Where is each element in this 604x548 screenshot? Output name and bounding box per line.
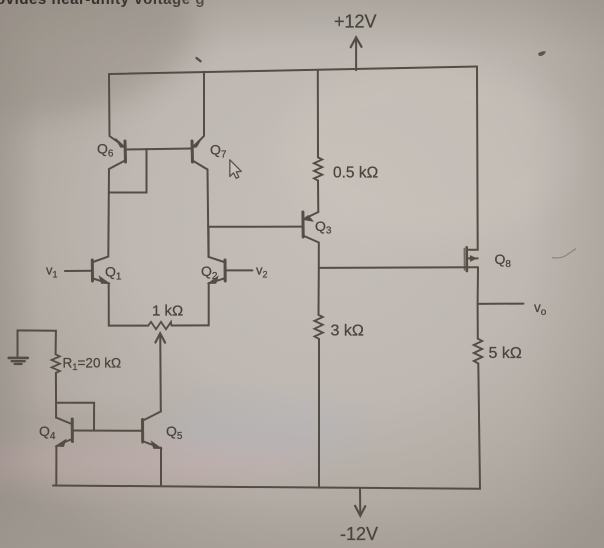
wire ground horizontal — [18, 330, 56, 357]
supply -12V arrow — [359, 489, 361, 516]
wire source to 5k — [477, 304, 479, 339]
photo mark dot — [197, 58, 201, 61]
transistor Q6 base bar — [124, 141, 128, 162]
resistor 0.5k zigzag — [314, 157, 322, 180]
transistor Q3 emitter arrow — [303, 216, 313, 222]
wire Q8 source down — [477, 267, 479, 304]
transistor Q3 emitter wire — [307, 212, 318, 218]
wire 3k branch — [318, 268, 320, 315]
transistor Q7 emitter arrow — [192, 139, 202, 148]
wire Q4 emitter down — [55, 446, 57, 486]
wire Q7 collector down to node A — [193, 161, 209, 258]
resistor 1k zigzag — [148, 322, 171, 329]
transistor Q3 collector wire — [303, 236, 319, 268]
resistor R1 zigzag — [52, 354, 60, 373]
tail arrowhead — [159, 334, 161, 342]
transistor Q1 emitter wire — [93, 279, 105, 283]
wire Q6-Q7 base link — [126, 149, 193, 150]
transistor Q1 base bar — [91, 260, 94, 281]
mouse cursor — [230, 160, 242, 179]
svg-text:0.5 kΩ: 0.5 kΩ — [333, 165, 378, 182]
wire tail current to Q5 collector — [159, 341, 162, 412]
transistor Q5 emitter arrow — [152, 442, 162, 449]
resistor 5k zigzag — [474, 339, 483, 364]
transistor Q6 emitter arrow — [116, 139, 126, 148]
wire 0.5k to Q3 emitter — [317, 181, 319, 212]
wire Q6 collector down to Q1 — [108, 161, 125, 257]
mosfet Q8 gate bar — [463, 249, 465, 271]
transistor Q4 emitter arrow — [56, 440, 66, 447]
svg-text:R1=20 kΩ: R1=20 kΩ — [63, 356, 122, 374]
resistor 3k zigzag — [314, 315, 323, 339]
transistor Q5 emitter wire — [144, 442, 157, 447]
wire node A to Q3 base — [208, 226, 303, 228]
svg-text:+12V: +12V — [334, 12, 377, 32]
wire emitter rail left — [109, 325, 148, 327]
wire v1 input — [65, 270, 92, 272]
transistor Q4 base bar — [71, 419, 74, 442]
wire 0.5k branch from rail — [317, 70, 319, 158]
transistor Q5 collector wire — [144, 412, 161, 421]
wire vo output — [478, 303, 524, 305]
wire emitter rail right — [171, 324, 208, 326]
transistor Q4 collector wire — [56, 418, 70, 424]
transistor Q2 emitter down wire — [208, 283, 210, 325]
wire Q3 collector to Q8 gate — [319, 266, 478, 269]
wire Q5 emitter down — [160, 448, 162, 487]
mosfet Q8 body arrow stub — [468, 257, 478, 259]
transistor Q2 emitter arrow — [208, 277, 218, 284]
photo mark swoosh — [552, 249, 576, 258]
transistor Q6 emitter wire — [109, 74, 122, 145]
svg-text:ovides near-unity voltage g: ovides near-unity voltage g — [0, 0, 205, 8]
wire 5k to bottom rail — [478, 364, 480, 489]
wire bottom rail — [53, 486, 480, 489]
transistor Q1 emitter arrow — [100, 277, 110, 284]
svg-text:1 kΩ: 1 kΩ — [152, 303, 183, 320]
wire v2 input — [225, 269, 252, 271]
ground symbol — [9, 357, 28, 360]
transistor Q7 emitter wire — [195, 72, 204, 145]
wire R1 to Q4 collector — [55, 373, 57, 418]
svg-text:5 kΩ: 5 kΩ — [489, 345, 522, 362]
transistor Q3 base bar — [301, 212, 304, 237]
wire Q4 diode connection — [56, 403, 94, 431]
wire 3k to bottom rail — [318, 339, 320, 488]
wire Q1 emitter down — [108, 283, 110, 326]
mosfet Q8 channel bar — [465, 247, 468, 271]
transistor Q2 emitter wire — [212, 279, 224, 283]
svg-text:3 kΩ: 3 kΩ — [331, 323, 364, 340]
svg-text:-12V: -12V — [340, 524, 378, 544]
photo mark blob — [538, 51, 546, 56]
wire Q4-Q5 base link — [72, 430, 142, 432]
wire Q6 diode connection — [109, 149, 147, 193]
wire Q8 drain from top rail — [468, 67, 478, 250]
transistor Q2 collector wire — [209, 227, 225, 262]
wire top rail +12V — [109, 67, 477, 75]
transistor Q1 collector wire — [93, 257, 108, 262]
transistor Q2 base bar — [224, 260, 227, 281]
transistor Q5 base bar — [141, 420, 144, 443]
transistor Q7 base bar — [191, 141, 195, 162]
supply +12V arrow — [355, 38, 357, 71]
transistor Q4 emitter wire — [60, 440, 71, 444]
